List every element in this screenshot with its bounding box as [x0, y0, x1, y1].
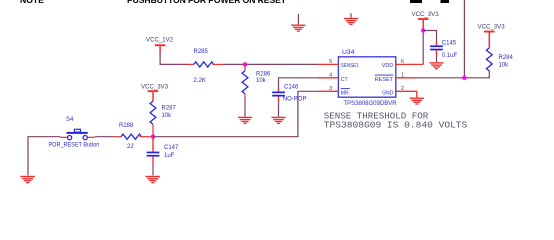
capacitor C145 — [430, 42, 443, 56]
op-amp/IC U34 supervisor box — [338, 57, 395, 97]
junction node (RESET/vertical) — [462, 76, 466, 80]
label R288 — [119, 123, 134, 129]
ground (below C145) — [429, 62, 443, 69]
label C147 — [164, 145, 179, 151]
wire R285 to junction to pin5 — [223, 63, 318, 65]
label POR_RESET Button — [49, 143, 100, 149]
value 10k (R287) — [162, 113, 173, 119]
ground (pin 2) — [410, 98, 424, 105]
power symbol VCC_3V3 (left) — [148, 90, 159, 101]
svg-text:U34: U34 — [342, 49, 355, 56]
wire vertical to page top (RESET out) — [463, 0, 465, 78]
value 10k (R286) — [256, 78, 267, 84]
svg-text:VCC_3V3: VCC_3V3 — [141, 84, 169, 91]
svg-text:SENSE1: SENSE1 — [341, 63, 359, 69]
svg-text:0.1uF: 0.1uF — [442, 53, 458, 59]
label R287 — [162, 105, 177, 111]
pin name VDD — [382, 63, 394, 69]
resistor R287 — [150, 101, 156, 137]
label R285 — [194, 49, 209, 55]
label C146 — [284, 85, 299, 91]
pin number 2 — [401, 86, 404, 92]
resistor R286 — [242, 64, 248, 98]
wire R286 to ground — [244, 98, 246, 117]
net label VCC_3V3 (right) — [478, 24, 506, 31]
svg-text:3: 3 — [329, 86, 332, 92]
svg-text:10k: 10k — [162, 113, 173, 119]
pin number 1 — [401, 72, 404, 78]
svg-text:C146: C146 — [284, 85, 299, 91]
wire C146 to pin4 (CT net) — [279, 78, 318, 89]
part value TPS3808G09DBVR — [344, 101, 398, 107]
svg-text:6: 6 — [401, 59, 404, 65]
label R286 — [256, 71, 271, 77]
ground (top middle, floating) — [344, 13, 358, 25]
svg-text:CT: CT — [341, 77, 348, 83]
svg-text:VCC_3V3: VCC_3V3 — [412, 11, 440, 18]
svg-text:10k: 10k — [499, 62, 510, 68]
svg-text:GND: GND — [382, 91, 393, 97]
pin number 4 — [329, 72, 332, 78]
label NO-POP — [283, 97, 307, 103]
pin 6 stub (VDD) — [396, 63, 423, 65]
svg-text:R287: R287 — [162, 105, 177, 111]
svg-text:R285: R285 — [194, 49, 209, 55]
svg-text:C147: C147 — [164, 145, 179, 151]
wire left rail to ground (POR net left end) — [28, 137, 60, 176]
svg-text:POR_RESET Button: POR_RESET Button — [49, 143, 100, 149]
svg-text:PUSHBUTTON FOR POWER ON RESET: PUSHBUTTON FOR POWER ON RESET — [127, 0, 287, 5]
wire C146 to ground — [278, 102, 280, 117]
svg-text:4: 4 — [329, 72, 332, 78]
ground (bottom left) — [20, 176, 34, 183]
capacitor C147 — [147, 137, 160, 164]
wire C145 to ground — [436, 55, 438, 62]
power symbol VCC_3V3 (top) — [418, 18, 429, 29]
wire VCC_1V2 to R285 — [160, 53, 187, 65]
resistor R288 — [114, 134, 151, 139]
capacitor C146 — [272, 88, 285, 102]
switch S4 (pushbutton) — [60, 129, 95, 139]
note text line 1 — [324, 111, 429, 122]
cropped text top-right mark 2 — [441, 0, 450, 3]
pin 4 stub (CT) — [318, 77, 339, 79]
value 0.1uF — [442, 53, 458, 59]
svg-text:C145: C145 — [442, 40, 457, 46]
pin 5 stub (SENSE1) — [318, 63, 339, 65]
junction node (R287/R288/C147/MR) — [151, 135, 155, 139]
svg-text:10k: 10k — [256, 78, 267, 84]
svg-text:1: 1 — [401, 72, 404, 78]
ground (top left, floating) — [291, 14, 305, 32]
svg-text:22: 22 — [127, 144, 134, 150]
wire VDD vertical — [422, 31, 424, 65]
junction node (R285/R286/SENSE1) — [243, 62, 247, 66]
svg-text:TPS3808G09DBVR: TPS3808G09DBVR — [344, 101, 398, 107]
refdes U34 — [342, 49, 355, 56]
cropped text top-right mark 1 — [410, 0, 422, 3]
wire MR net (junction to pin3) — [153, 91, 318, 136]
svg-text:R288: R288 — [119, 123, 134, 129]
svg-text:2.2K: 2.2K — [194, 78, 206, 84]
svg-text:VCC_3V3: VCC_3V3 — [478, 24, 506, 31]
net label VCC_3V3 (left) — [141, 84, 169, 91]
resistor R284 — [486, 48, 492, 71]
net label VCC_3V3 (top) — [412, 11, 440, 18]
cropped note text top-middle — [127, 0, 287, 5]
pin 1 stub (RESET) — [396, 77, 417, 79]
pin 3 stub (MR) — [318, 90, 339, 92]
power symbol VCC_1V2 — [155, 44, 166, 53]
label C145 — [442, 40, 457, 46]
svg-text:S4: S4 — [66, 117, 74, 123]
value 22 — [127, 144, 134, 150]
resistor R285 — [186, 62, 223, 67]
svg-text:R284: R284 — [499, 55, 514, 61]
power symbol VCC_3V3 (right) — [484, 31, 495, 48]
pin name CT — [341, 77, 348, 83]
svg-text:R286: R286 — [256, 71, 271, 77]
pin 2 stub (GND) — [396, 91, 417, 97]
ground (below C146) — [272, 117, 286, 124]
cropped note text top-left — [20, 0, 44, 5]
svg-text:TPS3808G09 IS 0.840 VOLTS: TPS3808G09 IS 0.840 VOLTS — [324, 119, 468, 130]
wire C147 to ground — [152, 164, 154, 176]
svg-text:1uF: 1uF — [164, 153, 175, 159]
ground (below R286) — [238, 117, 252, 124]
pin number 3 — [329, 86, 332, 92]
pin number 5 — [329, 59, 332, 65]
junction node (VCC/VDD/C145) — [421, 28, 425, 32]
note text line 2 — [324, 119, 468, 130]
pin name RESET (with overline) — [375, 75, 394, 83]
pin name SENSE1 — [341, 63, 359, 69]
svg-text:VCC_1V2: VCC_1V2 — [146, 37, 174, 44]
pin name MR (with overline) — [341, 89, 350, 97]
wire S4 to R288 — [95, 136, 115, 138]
svg-text:NO-POP: NO-POP — [283, 97, 307, 103]
svg-text:VDD: VDD — [382, 63, 394, 69]
value 2.2K — [194, 78, 206, 84]
label R284 — [499, 55, 514, 61]
wire junction to C145 — [423, 31, 436, 42]
svg-text:NOTE: NOTE — [20, 0, 44, 5]
pin number 6 — [401, 59, 404, 65]
pin name GND — [382, 91, 393, 97]
value 1uF — [164, 153, 175, 159]
label S4 — [66, 117, 74, 123]
svg-text:5: 5 — [329, 59, 332, 65]
svg-text:RESET: RESET — [375, 77, 394, 83]
net label VCC_1V2 — [146, 37, 174, 44]
wire RESET net — [417, 70, 490, 78]
ground (below C147) — [146, 176, 160, 183]
svg-text:2: 2 — [401, 86, 404, 92]
value 10k (R284) — [499, 62, 510, 68]
svg-text:MR: MR — [341, 91, 349, 97]
